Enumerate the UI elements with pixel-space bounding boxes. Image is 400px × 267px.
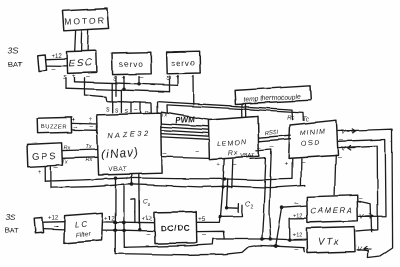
svg-text:+: + [217,162,221,169]
svg-text:–: – [90,124,94,131]
svg-text:+12: +12 [52,53,63,59]
svg-text:+12: +12 [48,216,59,222]
svg-text:Filter: Filter [76,231,92,239]
wire naze minus stub [140,102,142,112]
svg-text:–: – [295,247,299,254]
wire esc - drop [84,78,86,95]
junction [138,228,141,231]
junction [122,221,126,225]
wire batt2 +12 [44,221,65,224]
svg-text:–: – [356,228,360,235]
wire gps tx [62,157,97,158]
svg-text:–: – [105,228,109,235]
wire rssi 2 [259,139,291,142]
wire osd + stub [291,158,293,179]
junction [113,220,117,224]
svg-text:servo: servo [171,58,196,67]
wire lemon + / +5 riser [197,159,225,223]
junction [221,185,224,188]
wire camera - left [276,206,307,247]
svg-text:s: s [115,107,119,114]
capacitor C2 [220,201,254,217]
svg-text:–: – [359,195,363,202]
svg-text:–: – [52,66,56,73]
battery 3S BAT (top) label [8,45,22,69]
svg-text:DC/DC: DC/DC [161,223,191,234]
rail VBAT+ [45,178,292,181]
svg-text:–: – [54,165,58,172]
svg-text:+12: +12 [105,216,116,222]
svg-text:+: + [126,175,130,182]
junction [225,207,228,210]
wire motor-esc 3 [87,30,90,51]
svg-text:BUZZER: BUZZER [41,125,67,131]
junction [122,88,125,91]
wire rail +12 (lc to dcdc) [103,221,154,224]
junction [130,183,134,187]
junction [260,237,263,240]
svg-text:+12: +12 [294,213,303,219]
buzzer [37,117,71,133]
wire servo1 + drop [123,77,125,90]
svg-text:3S: 3S [8,45,19,55]
wire buzzer - [71,129,98,131]
wire dcdc - out [197,231,224,239]
wire naze vbat+ stub [131,175,133,185]
wire naze s2 stub [120,90,122,113]
wire esc + drop [74,78,76,82]
wire esc s drop [65,78,67,88]
svg-text:VTx: VTx [317,236,340,247]
wire bus Lc (-) [85,95,151,103]
wire buzzer + [72,122,99,125]
wire thermo 2 [245,103,247,119]
junction [274,245,277,248]
junction [114,177,117,180]
svg-text:+: + [72,73,76,80]
junction [137,82,140,85]
wire servo2 + drop [177,76,179,86]
wire bottom P (gnd) [115,245,304,254]
svg-text:V: V [357,247,362,254]
battery connector (top) [37,55,46,71]
svg-text:BAT: BAT [5,226,19,235]
svg-text:–: – [147,231,151,238]
wire pwm 3 [161,130,208,133]
wire batt1 + [47,58,67,61]
LC filter [64,213,103,244]
svg-text:Rx: Rx [228,150,239,158]
svg-text:+5: +5 [198,216,206,223]
wire bottom Q (+12 feed) [124,239,306,247]
svg-text:–: – [338,154,342,161]
junction [223,177,226,180]
GPS [27,143,62,167]
wire gps rx [62,150,98,151]
svg-text:VBAT: VBAT [108,166,127,173]
wire motor-esc 2 [80,30,83,51]
svg-text:–: – [86,73,90,80]
svg-text:ESC: ESC [68,58,93,70]
wire bus La (+) [75,82,179,86]
VTx [306,227,355,253]
svg-text:–: – [140,74,144,81]
wire osd V<- loop R3 [338,146,378,231]
wire servo1 - drop [138,77,140,84]
LEMON Rx receiver [208,116,258,159]
junction [219,215,222,218]
svg-text:–: – [202,232,206,239]
wire batt2 - [44,228,65,231]
svg-text:–: – [54,223,58,230]
wire osd V-> loop R1 [337,129,392,258]
servo 2 [167,51,201,74]
svg-text:V: V [360,214,365,221]
svg-text:–: – [195,149,199,156]
wire C2 companion vertical [227,179,228,209]
svg-text:–: – [301,160,305,167]
rail VBAT- [51,184,305,187]
wire rssi 1 [259,135,291,138]
junction [280,205,284,209]
MINIM OSD [289,120,338,158]
svg-text:1: 1 [148,202,151,207]
wire gps + stub [44,166,46,181]
wire servo2 s drop [169,76,171,92]
wire camera - right R5 [357,201,372,232]
svg-text:V: V [341,129,346,136]
svg-text:(iNav): (iNav) [101,145,140,161]
junction [288,238,291,241]
wire osd - stub [300,159,303,186]
wire pwm 1 [161,124,208,127]
svg-text:s: s [106,106,110,113]
wire lemon corner drop [250,158,266,239]
wire lemon right - drop [256,149,271,239]
wire motor-esc 1 [74,31,77,52]
svg-text:+12: +12 [293,233,302,239]
junction [122,221,125,224]
wire naze->osd W1 [157,102,293,120]
svg-text:Rc: Rc [287,115,294,121]
svg-text:+: + [285,161,289,168]
svg-text:RSSI: RSSI [264,130,279,137]
svg-text:Tx: Tx [62,160,68,166]
battery 3S BAT (bottom) label [5,212,19,235]
wire servo1 s drop [115,77,117,96]
wire rail - (lc to dcdc) [103,229,155,232]
svg-text:–: – [270,144,274,151]
svg-text:–: – [163,150,167,157]
wire vertical VB [123,185,125,248]
NAZE32 flight controller [97,113,162,175]
svg-text:Tx: Tx [86,145,92,151]
svg-text:BAT: BAT [8,60,22,69]
junction [114,221,117,224]
wire pwm 4 [162,134,209,137]
svg-text:Tc: Tc [303,117,309,123]
svg-text:+12: +12 [142,217,153,223]
svg-text:GPS: GPS [31,151,57,163]
svg-text:MOTOR: MOTOR [64,15,106,26]
wire osd - drop R4 [335,155,336,195]
svg-text:servo: servo [119,59,144,68]
capacitor C1 [131,199,151,223]
svg-text:–: – [339,136,343,143]
svg-text:–: – [134,107,138,114]
svg-text:+: + [38,169,42,176]
svg-text:3S: 3S [6,212,17,222]
wire pwm 2 [161,127,208,130]
wire servo2 - drop [193,76,195,105]
svg-text:2: 2 [251,204,254,210]
wire vertical VA [114,178,116,253]
wire camera +12 riser [290,218,307,240]
wire bus Lb [66,88,170,92]
junction [122,229,125,232]
ESC U [67,51,96,74]
motor M [63,9,109,31]
svg-text:–: – [295,200,299,207]
temp thermocouple [235,86,311,104]
svg-text:V: V [341,146,346,153]
wire naze s3 stub [130,102,132,112]
wire gps - stub [50,166,52,188]
wire naze s1 stub [111,84,113,113]
svg-text:–: – [139,175,143,182]
servo 1 [112,52,151,74]
wire lemon - stub [232,160,233,188]
svg-text:Rx: Rx [86,158,93,164]
DC/DC converter [154,212,196,244]
svg-text:NAZE32: NAZE32 [107,129,151,140]
svg-text:Rx: Rx [64,146,71,152]
svg-text:–: – [74,124,78,131]
wire naze->osd W2 [167,105,304,120]
junction [269,238,272,241]
wire thermo 1 [241,104,243,120]
wire naze- to lemon- [162,157,209,158]
wire osd - loop R2 [338,140,386,217]
svg-text:LC: LC [75,220,90,230]
CAMERA [307,195,358,222]
wire batt1 - [47,65,67,67]
svg-text:CAMERA: CAMERA [310,206,353,216]
battery connector (bottom) [34,218,43,234]
svg-text:+: + [89,118,93,124]
svg-text:–: – [258,145,262,152]
wire pwm line0 [161,112,209,119]
wire pwm 5 [162,137,209,139]
wire naze Rx stub [150,103,152,113]
wire naze vbat- long drop [138,175,141,230]
junction [114,229,117,232]
